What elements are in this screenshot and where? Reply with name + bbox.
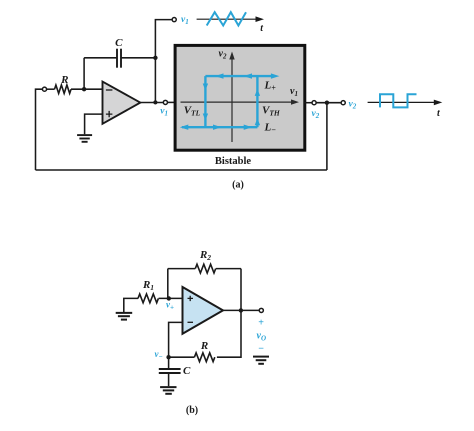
- svg-text:v1: v1: [181, 15, 189, 26]
- wire op-amp output to terminal: [223, 309, 259, 311]
- capacitor C (b): [159, 369, 181, 373]
- svg-text:v2: v2: [312, 109, 320, 120]
- wire R2 right vertical down to output: [240, 269, 242, 311]
- terminal circle vO: [259, 308, 263, 312]
- label (b): [186, 405, 198, 416]
- terminal circle v1 top: [172, 18, 176, 22]
- node v- dot: [166, 355, 170, 359]
- resistor R1: [138, 294, 158, 303]
- node v1 dot: [153, 100, 157, 104]
- wire v- down to C: [168, 357, 170, 368]
- label L+: [264, 80, 277, 93]
- wire R1 to v+ node: [159, 297, 183, 299]
- label R2: [199, 249, 211, 262]
- label v2 (cyan, below left circle): [312, 109, 320, 120]
- node v2 dot (feedback tap): [325, 101, 329, 105]
- svg-text:−: −: [258, 343, 264, 354]
- label v1 (cyan, below circle): [160, 106, 168, 117]
- node output dot: [239, 308, 243, 312]
- svg-text:R: R: [60, 74, 68, 86]
- wire feedback vertical right (from v2 node down): [326, 103, 328, 170]
- resistor R2: [195, 264, 215, 273]
- ground (below C): [160, 387, 176, 394]
- svg-text:+: +: [258, 317, 264, 328]
- wire bistable output: [304, 102, 312, 104]
- label R: [60, 74, 68, 86]
- label VTH: [262, 105, 281, 118]
- ground (R1 input): [116, 313, 133, 320]
- svg-text:R2: R2: [199, 249, 211, 262]
- hysteresis left vertical at VTL: [203, 76, 208, 127]
- ground (output reference): [253, 357, 269, 364]
- label v2 axis: [219, 48, 227, 60]
- svg-text:C: C: [115, 37, 123, 49]
- wire minus input down to v- node: [169, 322, 183, 357]
- op-amp U2 minus sign: [188, 321, 194, 323]
- label t (triangle wave): [260, 23, 264, 34]
- label t (square wave): [437, 108, 441, 119]
- hysteresis bottom line L-: [180, 125, 258, 130]
- triangle wave time axis: [197, 16, 264, 22]
- square waveform v2: [380, 94, 417, 107]
- wire R to output vertical: [217, 310, 241, 357]
- svg-text:R: R: [200, 340, 208, 352]
- op-amp U2: [183, 287, 224, 334]
- label v2 (cyan, right of circle): [349, 100, 357, 111]
- wire C to ground: [168, 373, 170, 386]
- wire plus input to ground: [85, 114, 103, 134]
- wire R2 top left lead: [168, 268, 196, 270]
- terminal circle bistable output: [312, 101, 316, 105]
- label VTL: [184, 105, 201, 118]
- svg-text:v2: v2: [349, 100, 357, 111]
- wire v- to R: [169, 356, 195, 358]
- input terminal circle: [42, 87, 46, 91]
- svg-text:v+: v+: [166, 300, 174, 312]
- label - (cyan): [258, 343, 264, 354]
- wire op-amp output: [140, 102, 163, 104]
- label v1 (cyan, top terminal): [181, 15, 189, 26]
- label R1: [142, 279, 154, 292]
- wire R to node: [71, 88, 102, 90]
- label (a): [232, 180, 244, 191]
- wire feedback left vertical up to input: [36, 89, 43, 170]
- label v- (cyan): [155, 349, 163, 361]
- bistable v2 axis (vertical): [229, 52, 234, 143]
- svg-text:(a): (a): [232, 180, 244, 191]
- ground (op-amp a plus input): [77, 135, 92, 142]
- wire C left lead: [84, 57, 117, 59]
- wire R2 top right lead: [216, 268, 241, 270]
- svg-text:t: t: [437, 108, 441, 119]
- junction dot C to output branch: [153, 56, 157, 60]
- wire terminal circle to bistable box: [168, 101, 177, 103]
- label v1 axis: [290, 86, 298, 98]
- node dot at inverting input: [82, 87, 86, 91]
- label C (b): [183, 365, 191, 377]
- wire v1 node up to top terminal: [155, 20, 171, 103]
- svg-text:v1: v1: [160, 106, 168, 117]
- triangle waveform v1: [207, 12, 246, 25]
- hysteresis top line L+: [205, 73, 279, 78]
- op-amp U1: [103, 82, 141, 124]
- label L-: [264, 122, 277, 135]
- wire node up to C: [83, 58, 85, 89]
- label vO (cyan): [257, 331, 267, 343]
- resistor R: [55, 85, 72, 93]
- resistor R (b): [194, 353, 214, 362]
- wire C right lead: [121, 57, 155, 59]
- wire between output circles: [316, 102, 341, 104]
- svg-text:v−: v−: [155, 349, 163, 361]
- op-amp U2 plus sign: [188, 296, 194, 301]
- label R (b): [200, 340, 208, 352]
- capacitor C: [117, 49, 121, 68]
- op-amp U1 plus sign: [106, 111, 113, 117]
- square wave time axis: [368, 100, 443, 106]
- op-amp U1 minus sign: [106, 89, 113, 91]
- svg-text:vO: vO: [257, 331, 267, 343]
- wire feedback bottom horizontal: [36, 169, 327, 171]
- label C: [115, 37, 123, 49]
- svg-text:C: C: [183, 365, 191, 377]
- terminal circle v2: [341, 101, 345, 105]
- label v+ (cyan): [166, 300, 174, 312]
- wire ground to R1: [124, 298, 138, 312]
- node v+ dot: [167, 296, 171, 300]
- svg-text:Bistable: Bistable: [215, 156, 252, 167]
- svg-text:(b): (b): [186, 405, 198, 416]
- bistable block box: [175, 45, 305, 150]
- svg-text:R1: R1: [142, 279, 154, 292]
- bistable v1 axis (horizontal): [181, 99, 300, 104]
- hysteresis right vertical at VTH: [255, 76, 260, 127]
- label Bistable: [215, 156, 252, 167]
- svg-text:t: t: [260, 23, 264, 34]
- label + (cyan): [258, 317, 264, 328]
- wire R2 left vertical down to v+: [167, 269, 169, 299]
- wire terminal to R: [47, 88, 55, 90]
- terminal circle v1 output: [163, 100, 167, 104]
